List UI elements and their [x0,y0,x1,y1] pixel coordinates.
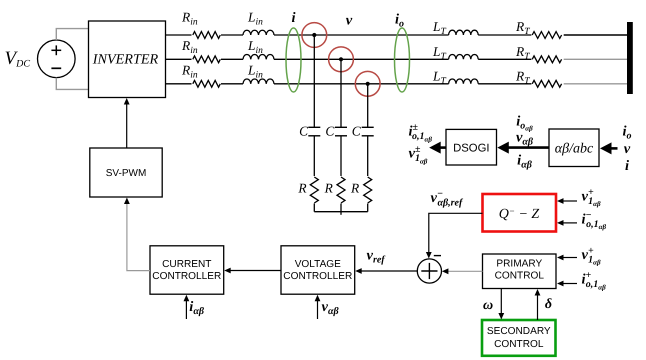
node 2 [339,57,343,61]
arrow io1ab+ into primary control [563,283,577,285]
capacitor C1 [308,127,320,136]
resistor RT2 [532,56,561,63]
inductor LT2 [449,54,479,59]
svg-text:CURRENT: CURRENT [162,259,211,270]
grid bus bar [627,22,633,94]
svg-text:CONTROLLER: CONTROLLER [283,271,352,282]
voltage sensor circle 1 [302,23,327,48]
wire phase 3: RT to bus [564,83,627,85]
inductor Lin1 [243,30,274,35]
wire VDC+ to inverter (gray) [56,29,88,40]
svg-text:R: R [297,180,306,195]
arrow delta: secondary to primary [537,295,539,321]
inductor LT1 [449,30,479,35]
block alpha-beta/abc transform [549,129,599,167]
wire phase 1: RT to bus [564,34,627,36]
wire phase 1: Lin to LT [274,34,449,36]
wire phase 1: LT to RT [478,34,531,36]
svg-text:Q− − Z: Q− − Z [499,206,540,222]
svg-text:v: v [346,13,353,29]
arrow voltage controller to current controller [230,270,281,272]
arrow SV-PWM to inverter [126,104,128,148]
current sensor ellipse i [286,28,301,92]
wire R3 to neutral bus [367,204,369,212]
svg-text:DSOGI: DSOGI [453,143,489,155]
wire phase 3: LT to RT [478,83,531,85]
node 1 [312,33,316,37]
wire R1 to neutral bus [313,204,315,212]
resistor RT1 [532,32,561,39]
thick arrow: measurements into abc block [607,147,618,150]
wire phase 3: inverter to Rin [166,83,192,85]
current sensor ellipse io [395,28,410,92]
svg-text:SV-PWM: SV-PWM [106,168,147,179]
resistor Rin1 [193,32,221,39]
wire primary control to summing junction (gray) [447,270,483,272]
wire phase 3: Lin to LT [274,83,449,85]
block PRIMARY CONTROL [483,254,557,289]
svg-text:R: R [324,180,333,195]
svg-text:SECONDARY: SECONDARY [487,326,551,337]
inductor Lin3 [243,79,274,84]
wire phase 3: Rin to Lin [221,83,243,85]
wire node 1 down to C1 [313,35,315,127]
svg-text:C: C [325,123,335,138]
resistor R1 (damping) [310,177,318,203]
capacitor C2 [335,127,347,136]
wire C3 to R3 [367,136,369,176]
block SECONDARY CONTROL (green) [482,320,556,356]
wire phase 2: Lin to LT [274,58,449,60]
svg-text:δ: δ [545,297,552,312]
svg-text:C: C [299,123,309,138]
wire phase 1: inverter to Rin [166,34,192,36]
voltage sensor circle 3 [355,71,380,96]
wire phase 1: Rin to Lin [221,34,243,36]
neutral stub [340,212,342,215]
wire R2 to neutral bus [340,204,342,212]
svg-text:CONTROL: CONTROL [495,271,545,282]
block Q minus Z (red) [483,194,557,232]
svg-text:CONTROL: CONTROL [494,339,544,350]
svg-text:v: v [624,141,631,157]
wire C2 to R2 [340,136,342,176]
resistor RT3 [532,80,561,87]
block DSOGI [446,129,497,165]
svg-text:R: R [350,180,359,195]
arrow omega: primary to secondary [500,289,502,315]
resistor Rin2 [193,56,221,63]
node 3 [366,82,370,86]
block VOLTAGE CONTROLLER [281,246,355,294]
svg-text:CONTROLLER: CONTROLLER [152,271,221,282]
thick arrow: abc block to DSOGI [504,146,549,149]
wire C1 to R1 [313,136,315,176]
resistor Rin3 [193,80,221,87]
block CURRENT CONTROLLER [150,246,224,294]
wire Q-Z output to summing junction [429,213,483,252]
svg-text:i: i [291,10,295,26]
svg-text:ω: ω [483,298,493,313]
arrow v_ab into voltage controller [317,299,319,319]
svg-text:C: C [352,123,362,138]
svg-text:VOLTAGE: VOLTAGE [295,259,341,270]
svg-text:αβ/abc: αβ/abc [555,142,594,157]
arrow v1ab+ into Q-Z [563,200,577,202]
wire phase 2: LT to RT [478,58,531,60]
wire phase 2: inverter to Rin [166,58,192,60]
resistor R2 (damping) [337,177,345,203]
summing junction [417,259,441,283]
arrow io1ab- into Q-Z [563,222,577,224]
wire VDC- to inverter (gray) [56,78,88,90]
svg-text:INVERTER: INVERTER [92,52,159,68]
block SV-PWM [90,148,162,197]
voltage source VDC [38,40,76,78]
resistor R3 (damping) [364,177,372,203]
capacitor C3 [362,127,374,136]
wire current controller to SV-PWM (gray) [127,203,150,271]
wire phase 2: RT to bus [564,58,627,60]
wire phase 2: Rin to Lin [221,58,243,60]
arrow i_ab into current controller [185,299,187,319]
block INVERTER [89,21,166,98]
arrow v1ab+ into primary control [563,257,577,259]
inductor LT3 [449,79,479,84]
inductor Lin2 [243,55,274,60]
wire node 3 down to C3 [367,84,369,128]
svg-text:i: i [625,158,629,174]
thick arrow: DSOGI output [436,146,446,149]
minus sign at summing junction [434,255,441,257]
neutral bus wire [314,211,367,213]
svg-text:PRIMARY: PRIMARY [496,259,542,270]
voltage sensor circle 2 [329,47,354,72]
wire node 2 down to C2 [340,59,342,127]
arrow summing junction to voltage controller [361,270,418,272]
